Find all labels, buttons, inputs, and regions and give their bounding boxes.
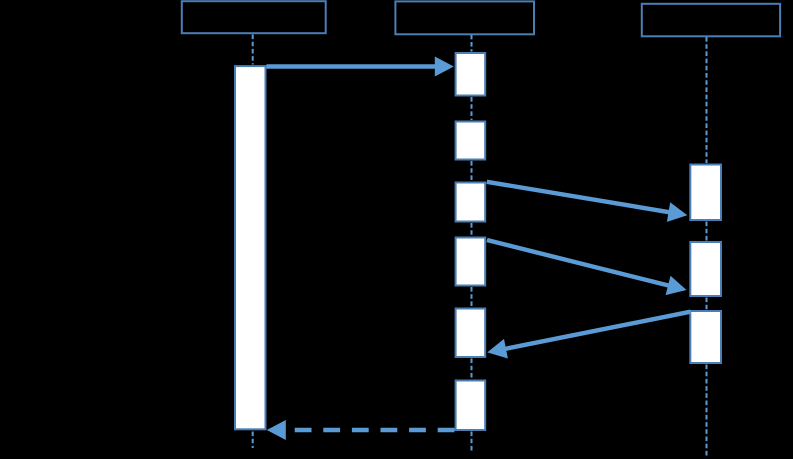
message arrow 4 (C to B, solid diagonal) <box>487 312 690 359</box>
activation bar B1 <box>456 53 486 96</box>
activation bar C3 <box>690 311 721 363</box>
lifeline header A <box>182 1 326 33</box>
activation bar B6 <box>456 381 486 431</box>
activation bar C1 <box>690 165 721 221</box>
lifeline B (dashed) <box>471 35 473 451</box>
activation bar A1 <box>235 66 266 429</box>
return message arrow 5 (B to A, dashed) <box>267 420 455 440</box>
message arrow 3 (B to C, solid diagonal) <box>487 240 687 295</box>
activation bar B3 <box>456 183 486 222</box>
message arrow 2 (B to C, solid diagonal) <box>487 182 688 222</box>
activation bar B4 <box>456 238 486 286</box>
lifeline A (dashed) <box>252 35 254 449</box>
activation bar C2 <box>690 242 721 296</box>
activation bar B2 <box>456 122 486 160</box>
lifeline header C <box>642 4 780 37</box>
message arrow 1 (A to B, solid) <box>267 57 454 77</box>
lifeline header B <box>395 1 534 34</box>
activation bar B5 <box>456 309 486 358</box>
lifeline C (dashed) <box>706 37 708 456</box>
